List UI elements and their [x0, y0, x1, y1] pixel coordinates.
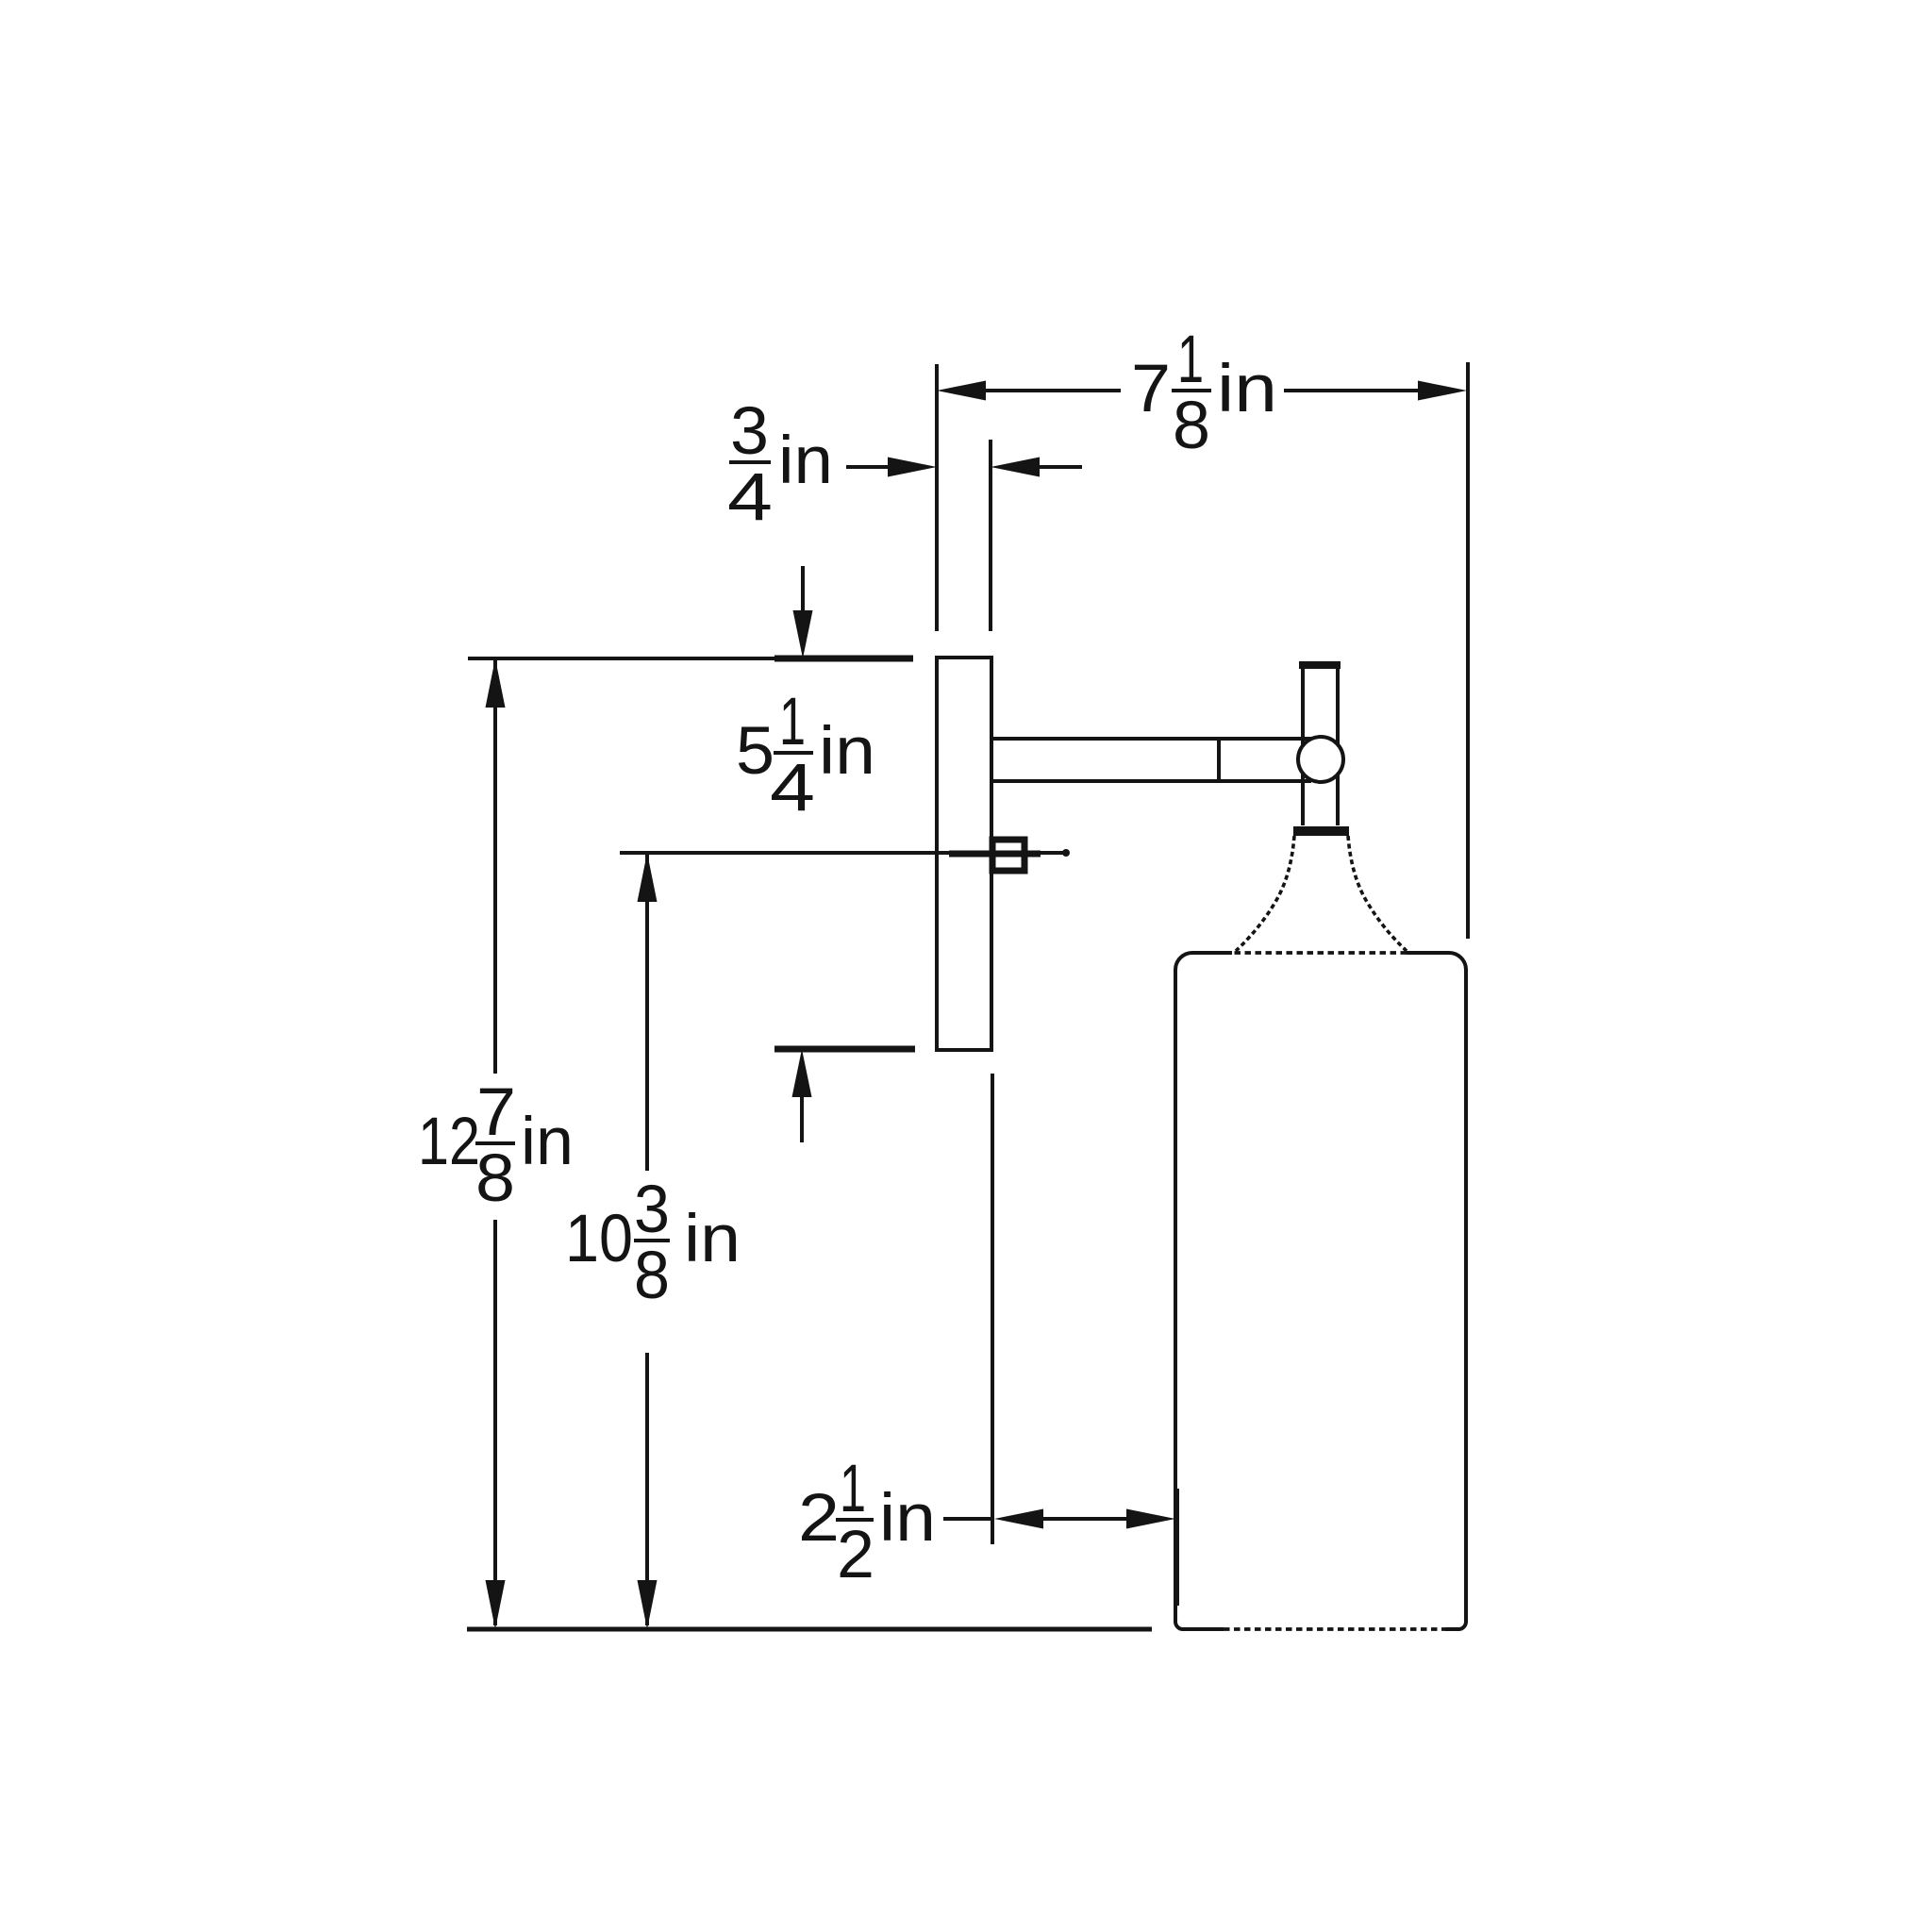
label 2 1/2 in: [798, 1452, 936, 1592]
svg-text:12: 12: [418, 1105, 480, 1179]
label 5 1/4 in: [736, 685, 875, 825]
label 10 3/8 in: [565, 1173, 741, 1313]
svg-text:3: 3: [730, 394, 769, 469]
dimension 7 1/8 arrow right: [1418, 381, 1467, 401]
backplate: [937, 658, 991, 1050]
dimension 12 7/8 arrow up: [486, 658, 506, 708]
svg-text:4: 4: [727, 460, 773, 535]
dimension 12 7/8 arrow down: [486, 1580, 506, 1629]
dimension 3/4 line right segment: [1039, 465, 1082, 469]
bell flare left curve: [1236, 836, 1294, 951]
svg-text:in: in: [879, 1481, 936, 1556]
extension line screw axis (y=904): [620, 851, 1068, 855]
svg-text:1: 1: [1177, 323, 1204, 397]
dimension 7 1/8 line right segment: [1284, 389, 1419, 392]
dimension 3/4 arrow right (tip at plate face): [991, 458, 1040, 477]
mounting screw: [992, 840, 1024, 871]
dimension 7 1/8 line left segment: [986, 389, 1121, 392]
svg-text:4: 4: [770, 751, 815, 825]
svg-text:10: 10: [565, 1202, 633, 1276]
landing bar 5 1/4 top (y=698 thick): [774, 656, 913, 662]
dimension 2 1/2 arrow left (tip at plate face): [994, 1509, 1043, 1529]
dimension 2 1/2 leader from label: [943, 1517, 994, 1521]
extension line plate front face upper (x=1050): [989, 440, 992, 631]
shade top hidden edge (dashed): [1232, 951, 1407, 955]
socket ring: [1293, 826, 1349, 836]
arm joint line: [1217, 739, 1221, 781]
dimension 3/4 arrow left (tip at wall plane): [888, 458, 937, 477]
dimension 5 1/4 bottom arrow tail: [800, 1097, 804, 1142]
dimension 10 3/8 arrow down: [638, 1580, 658, 1629]
extension overlay on shade left edge (x=1247): [1174, 1489, 1179, 1606]
pivot knob circle: [1298, 737, 1343, 782]
dimension 5 1/4 top arrow tail: [801, 566, 805, 613]
dimension 12 7/8 line upper segment: [493, 660, 497, 1074]
arm bottom edge: [991, 779, 1311, 783]
extension line shade right (x=1556): [1466, 362, 1470, 939]
dimension 5 1/4 bottom arrow (up): [792, 1049, 812, 1097]
svg-text:3: 3: [634, 1173, 670, 1247]
svg-text:5: 5: [736, 714, 774, 789]
shade bottom hidden edge (dashed): [1224, 1627, 1445, 1631]
dimension 10 3/8 arrow up: [638, 853, 658, 902]
arm top edge: [991, 737, 1311, 741]
dimension 3/4 line left segment: [846, 465, 894, 469]
dimension 5 1/4 top arrow (down): [793, 610, 813, 658]
extension line plate top left (y=698): [468, 657, 774, 660]
dimension 12 7/8 line lower segment: [493, 1220, 497, 1625]
svg-text:in: in: [684, 1202, 741, 1276]
dimension 2 1/2 arrow right (tip at shade edge): [1126, 1509, 1175, 1529]
label 12 7/8 in: [418, 1075, 574, 1216]
label 7 1/8 in: [1131, 323, 1277, 463]
post right edge: [1336, 668, 1340, 825]
svg-text:in: in: [521, 1105, 574, 1179]
shade top left edge (solid): [1192, 951, 1232, 955]
svg-text:1: 1: [779, 685, 806, 759]
svg-text:in: in: [1217, 352, 1277, 426]
extension line wall-plane upper (x=993): [935, 364, 939, 631]
svg-text:8: 8: [475, 1141, 515, 1216]
ground reference line (y=1727): [467, 1627, 1152, 1632]
post left edge: [1301, 668, 1305, 825]
extension line plate front face lower (x=1052): [991, 1074, 994, 1544]
svg-text:1: 1: [840, 1452, 866, 1526]
svg-text:in: in: [778, 424, 833, 498]
svg-text:2: 2: [798, 1481, 840, 1556]
dimension 7 1/8 arrow left: [937, 381, 986, 401]
dimension 10 3/8 line lower segment: [645, 1353, 649, 1625]
svg-text:7: 7: [1131, 352, 1171, 426]
svg-text:8: 8: [1173, 389, 1210, 463]
bell flare right curve: [1348, 836, 1407, 951]
screw axis end dot: [1062, 849, 1070, 857]
svg-text:in: in: [819, 714, 875, 789]
shade left side and bottom-left (solid): [1175, 953, 1224, 1629]
svg-text:7: 7: [476, 1075, 516, 1150]
shade right side and bottom-right (solid): [1407, 953, 1466, 1629]
label 3/4 in: [727, 394, 833, 535]
svg-text:2: 2: [837, 1518, 874, 1592]
dimension 10 3/8 line upper segment: [645, 855, 649, 1171]
dimension 2 1/2 line middle segment: [1041, 1517, 1128, 1521]
post top cap: [1299, 661, 1341, 669]
screw shaft thick overlay (y=905): [949, 851, 1041, 858]
svg-text:8: 8: [634, 1239, 670, 1313]
landing bar 5 1/4 bottom (y=1112 thick): [774, 1046, 915, 1053]
